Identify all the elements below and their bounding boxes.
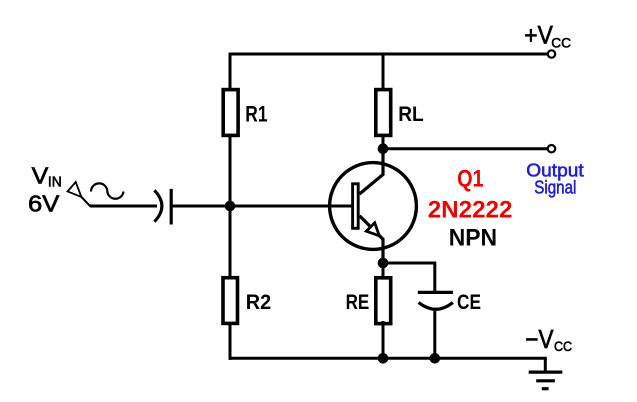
label Vin [32, 163, 62, 191]
capacitor Cin straight plate [170, 189, 173, 225]
ground [529, 372, 563, 389]
wire bottom rail [229, 357, 547, 360]
svg-text:IN: IN [48, 174, 62, 190]
wire RL bottom [382, 134, 385, 150]
svg-text:CE: CE [457, 290, 481, 314]
wire output [383, 147, 548, 150]
wire emitter to CE [383, 263, 435, 292]
svg-text:NPN: NPN [449, 225, 497, 252]
svg-text:RL: RL [398, 102, 424, 126]
label +Vcc [524, 21, 571, 50]
sine wave [91, 183, 124, 198]
emitter lead [360, 216, 384, 240]
node RE bottom [378, 353, 389, 364]
transistor Q1 circle [330, 163, 417, 250]
wire R2 top [229, 206, 232, 279]
svg-text:CC: CC [551, 36, 571, 51]
source lead [81, 197, 90, 207]
wire base [171, 205, 352, 208]
svg-text:2N2222: 2N2222 [428, 196, 513, 223]
wire emitter vertical [381, 239, 384, 266]
svg-text:RE: RE [346, 291, 370, 314]
wire RE bottom [382, 321, 385, 360]
emitter arrow [366, 223, 379, 236]
wire R1 bottom [229, 134, 232, 208]
resistor RE [376, 278, 391, 324]
svg-text:R1: R1 [245, 101, 267, 126]
wire input to capacitor [90, 205, 157, 208]
wire top rail [229, 53, 548, 56]
wire R1 top [229, 54, 232, 92]
ground stub [544, 358, 547, 372]
node collector [378, 143, 389, 154]
capacitor CE top plate [418, 291, 453, 294]
node CE bottom [430, 353, 441, 364]
svg-text:+V: +V [524, 21, 553, 49]
node emitter [378, 258, 389, 269]
svg-text:−V: −V [525, 326, 553, 354]
source arrow [68, 182, 82, 197]
capacitor Cin curved plate [154, 190, 162, 221]
terminal +Vcc [548, 50, 555, 57]
svg-text:V: V [32, 163, 49, 189]
svg-text:6V: 6V [28, 191, 60, 217]
wire R2 bottom [229, 324, 232, 360]
svg-text:Signal: Signal [534, 178, 576, 199]
wire RL top [382, 54, 385, 92]
resistor R1 [223, 90, 238, 136]
resistor RL [376, 90, 391, 136]
wire CE bottom [433, 308, 436, 360]
collector lead [360, 149, 384, 194]
wire RE top [382, 263, 385, 279]
capacitor CE curved plate [419, 303, 453, 310]
node base junction [225, 201, 236, 212]
terminal output [548, 145, 555, 152]
base bar [353, 184, 359, 229]
svg-text:Q1: Q1 [457, 166, 484, 193]
resistor R2 [223, 278, 238, 324]
label -Vcc [525, 326, 572, 354]
svg-text:R2: R2 [246, 290, 271, 314]
svg-text:CC: CC [554, 339, 572, 354]
